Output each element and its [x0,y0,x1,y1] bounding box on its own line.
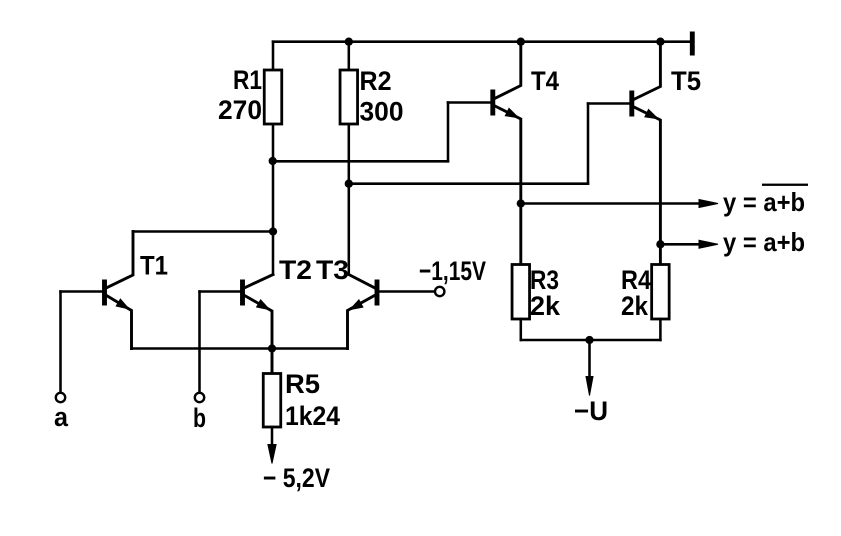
transistor T2 collector diagonal [245,275,274,288]
wire: T4 base lead [448,101,491,104]
transistor T2 emitter diagonal and vertical to node C [245,296,273,374]
label R4 [621,265,651,295]
resistor R5 [263,374,281,428]
arrowhead OR output [699,240,718,248]
wire: R5 to negative supply arrow shaft [271,427,274,448]
svg-text:2k: 2k [530,291,561,321]
junction: R1 column / collector tie line [269,227,277,235]
label R3 [530,265,559,295]
wire: T4 base drop vertical [447,103,450,162]
label R3 value 2k [530,291,561,321]
resistor R1 [264,70,282,124]
T1 emitter arrowhead [116,299,129,309]
svg-text:T1: T1 [140,251,168,281]
transistor T2 base bar [240,280,245,306]
label R2 value 300 [360,97,404,127]
label T3 [316,255,349,285]
transistor T4 collector vertical and diagonal [495,42,521,99]
transistor T1 base bar [102,280,107,306]
overline bar over a+b [762,184,808,186]
label -5,2V [263,463,330,493]
svg-text:b: b [193,403,206,433]
svg-text:−U: −U [574,396,608,426]
junction: R3-R4 tie / -U [585,336,593,344]
svg-text:300: 300 [360,97,404,127]
svg-text:T3: T3 [316,255,349,285]
arrowhead NOR output [699,200,718,208]
svg-text:R1: R1 [233,65,262,95]
svg-text:− 5,2V: − 5,2V [263,463,330,493]
wire: -U arrow shaft [588,340,591,380]
label T2 [279,255,312,285]
label R5 value 1k24 [285,401,340,431]
wire: node A line to T4 base drop [273,160,448,163]
wire: top supply rail [273,40,691,43]
transistor T3 collector diagonal [349,275,375,288]
wire: T1 base lead from input a [61,290,103,293]
wire: NOR output line [521,202,701,205]
T3 emitter arrowhead [350,300,363,310]
label R5 [285,369,320,399]
wire: node B line to T5 base drop [349,182,588,185]
junction: T4 emitter / NOR output [517,199,525,207]
wire: R2 column from rail through node B down to T3 collector [348,42,351,275]
label R2 [360,66,392,96]
terminal: input b open circle [195,393,204,402]
wire: node C emitter rail to R5 [271,349,274,374]
T4 emitter arrowhead [505,108,518,117]
junction: T5 emitter / OR output [656,240,664,248]
resistor R3 [512,265,530,320]
wire: R1 bottom column through node A down to T2 collector [272,124,275,275]
transistor T3 emitter diagonal and vertical [348,296,375,349]
terminal: reference -1,15V open circle [435,287,444,296]
arrow to -5,2V supply [268,445,276,464]
wire: T5 base lead [588,102,630,105]
svg-text:270: 270 [218,95,262,125]
label R1 [233,65,262,95]
wire: T3 base lead to reference terminal [379,290,435,293]
transistor T5 base bar [629,91,634,117]
junction: rail / R2 [345,38,353,46]
transistor T4 emitter diagonal and vertical to R3 [495,106,521,265]
label T4 [531,66,559,96]
resistor R2 [340,70,358,124]
wire: bottom tie line R3-R4 [521,339,661,342]
wire: R3 lower lead [520,319,523,340]
wire: common emitter rail [132,347,348,350]
wire: R4 lower lead [659,319,662,340]
junction: node A at R1 bottom [269,157,277,165]
svg-text:T5: T5 [671,66,701,96]
wire: input a vertical [59,292,62,393]
wire: T1 collector vertical and diagonal [107,232,134,288]
label y = a+b (NOR, with overline) [723,187,805,217]
junction: emitter rail / R5 (node C) [268,344,276,352]
junction: node B at R2 bottom [345,180,353,188]
T2 emitter arrowhead [257,300,270,310]
transistor T5 emitter diagonal and vertical to R4 [634,107,660,265]
wire: T5 base drop vertical [587,104,590,184]
svg-text:1k24: 1k24 [285,401,340,431]
arrow to -U supply [586,377,593,396]
svg-text:−1,15V: −1,15V [419,256,486,286]
svg-text:2k: 2k [621,291,649,321]
wire: T2 base lead from input b [200,290,241,293]
transistor T1 emitter diagonal and vertical [107,296,132,349]
label T5 [671,66,701,96]
label -U [574,396,608,426]
svg-text:T4: T4 [531,66,559,96]
svg-text:a: a [54,402,69,432]
T5 emitter arrowhead [645,110,658,119]
svg-text:y = a+b: y = a+b [723,227,805,257]
svg-text:T2: T2 [279,255,312,285]
label R1 value 270 [218,95,262,125]
junction: rail / T5 collector [656,38,664,46]
wire: OR output line [660,243,701,246]
label a [54,402,69,432]
wire: input b vertical [198,292,201,393]
junction: rail / T4 collector [517,38,525,46]
transistor T4 base bar [490,90,495,116]
label -1,15V [419,256,486,286]
wire: R1 top lead from rail [272,42,275,70]
supply terminal bar at rail right end [690,32,695,56]
transistor T5 collector vertical and diagonal [634,42,660,100]
svg-text:R2: R2 [360,66,392,96]
svg-text:y = a+b: y = a+b [723,187,805,217]
transistor T3 base bar [375,280,380,306]
label R4 value 2k [621,291,649,321]
wire: T1/T2 collector tie line [133,230,273,233]
terminal: input a open circle [56,393,65,402]
label T1 [140,251,168,281]
label y = a+b (OR) [723,227,805,257]
resistor R4 [652,265,670,320]
svg-text:R5: R5 [285,369,320,399]
label b [193,403,206,433]
